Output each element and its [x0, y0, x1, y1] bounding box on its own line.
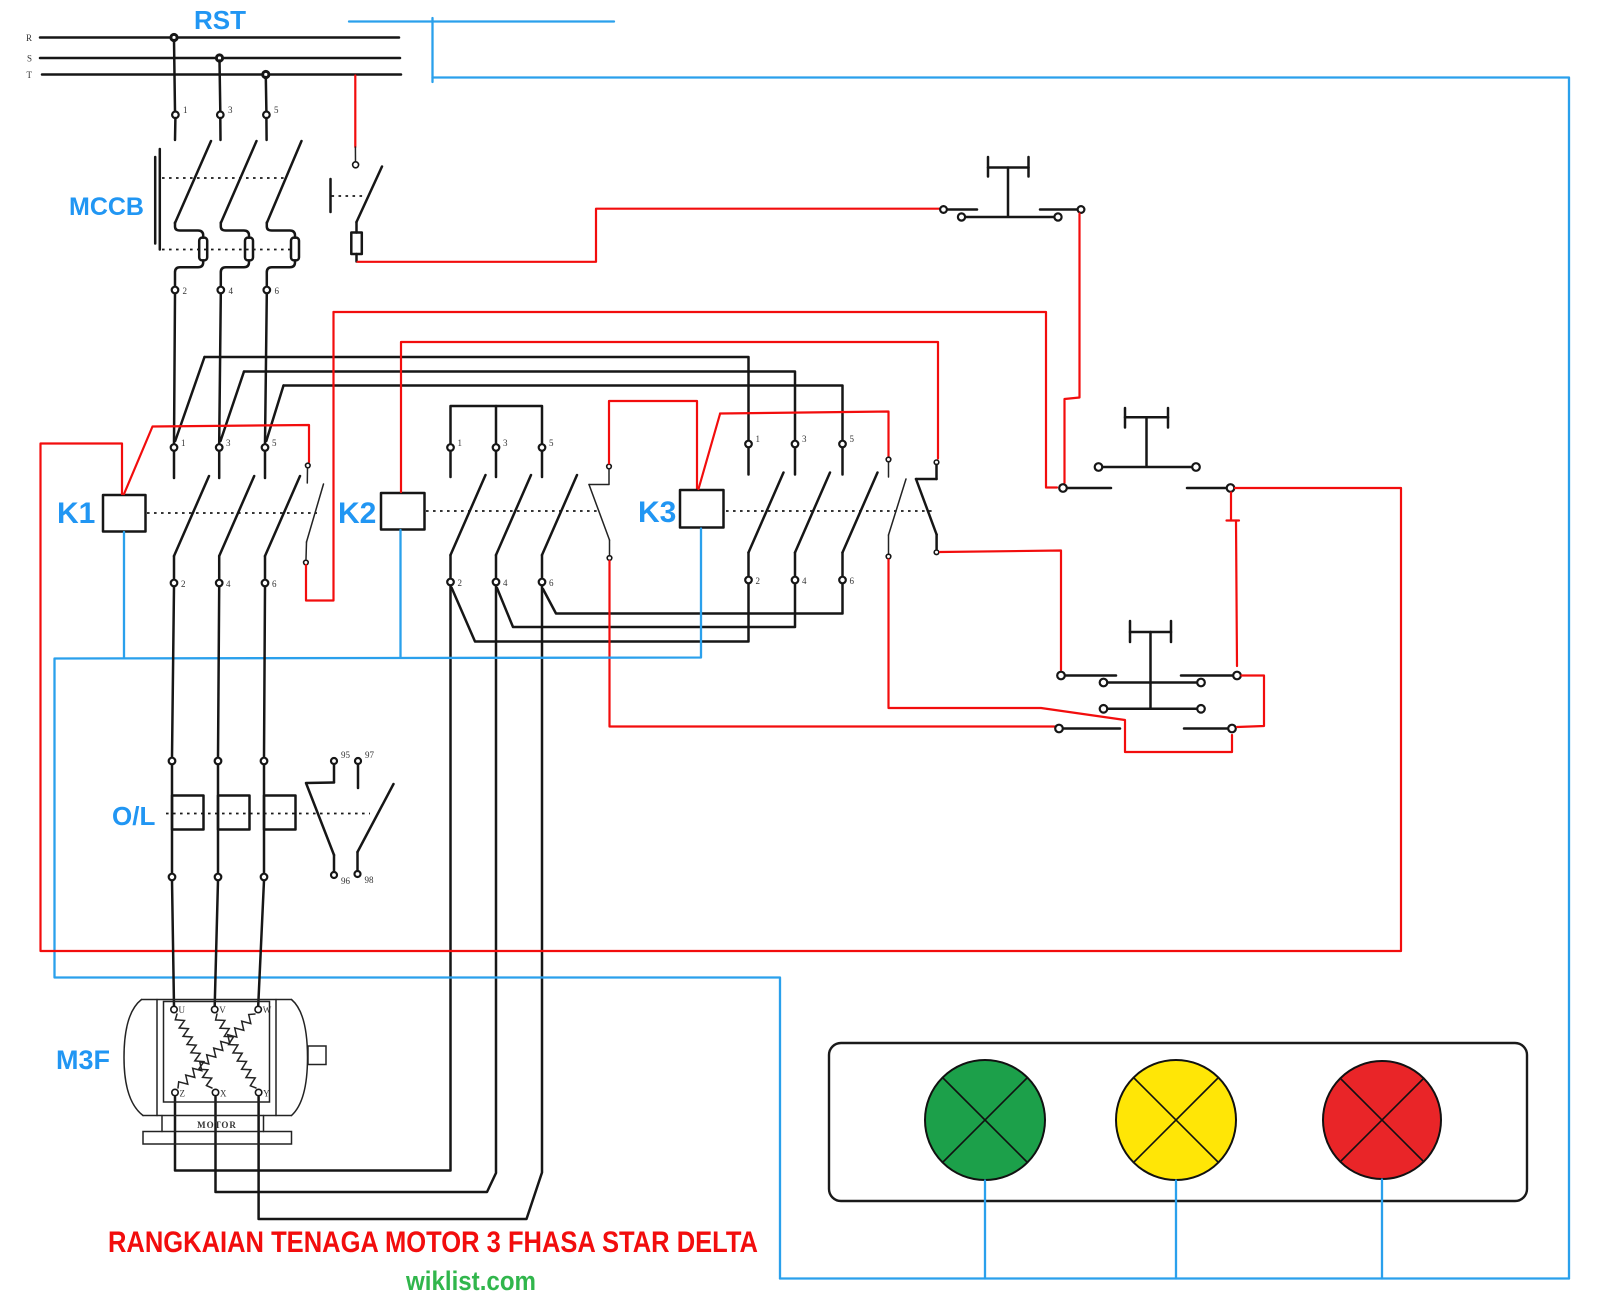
fuse bottom stub	[355, 254, 358, 262]
push button CHANGEOVER actuator	[1130, 621, 1171, 681]
MCCB thermal element pole 5 lead	[267, 223, 295, 287]
svg-text:4: 4	[229, 286, 234, 296]
wire K3 aux to button (red)	[940, 551, 1061, 671]
motor base plate	[143, 1132, 292, 1145]
svg-text:1: 1	[756, 434, 761, 444]
MCCB pole 5 stub	[265, 118, 268, 140]
wire K3 loop feed (red)	[609, 401, 697, 489]
MCCB pin 4	[218, 286, 234, 296]
MCCB pin 2	[172, 286, 187, 296]
push button STOP bridge contact	[958, 213, 1062, 220]
wire overload pole5 to motor W	[258, 881, 264, 1007]
wire overload pole3 to motor V	[215, 881, 218, 1007]
svg-text:K3: K3	[638, 496, 676, 529]
blue neutral stub top	[349, 20, 614, 22]
wire K3 coil to timer bus diagonal (red)	[699, 412, 889, 490]
wire lamp yellow drop (blue)	[1175, 1181, 1177, 1279]
wire K1 aux to holding bus (red)	[306, 312, 334, 601]
K2 pin 3	[493, 438, 508, 451]
control breaker F1 latch bar	[329, 179, 332, 212]
push button CHANGEOVER NO left terminal	[1055, 725, 1120, 733]
K1 pin 2	[171, 579, 186, 589]
svg-text:2: 2	[181, 579, 186, 589]
K1 pin 1	[171, 438, 186, 451]
motor winding V-Y	[216, 1014, 256, 1088]
K2 pole 5 contact	[542, 451, 577, 579]
push button CHANGEOVER NC left terminal	[1057, 672, 1116, 680]
interlock NC contact	[589, 469, 610, 555]
bus line L3 to K3 pole 3	[284, 386, 843, 441]
svg-text:X: X	[220, 1089, 227, 1099]
K1 pole 5 contact	[265, 451, 300, 580]
K2 star bar center drop	[495, 406, 498, 444]
motor shaft stub	[308, 1046, 326, 1065]
motor terminal Y	[255, 1089, 270, 1099]
svg-text:5: 5	[549, 438, 554, 448]
svg-text:V: V	[219, 1005, 226, 1015]
wire K1 pin2 to overload pole 1	[172, 587, 174, 758]
svg-text:2: 2	[458, 578, 463, 588]
push button START actuator	[1125, 408, 1168, 466]
overload trip contact 95	[331, 750, 351, 782]
fuse element F1	[351, 233, 362, 255]
wire lamp red drop (blue)	[1381, 1180, 1383, 1279]
MCCB thermal heater pole 3	[245, 238, 253, 261]
node junction R tap	[171, 34, 177, 40]
motor terminal W	[255, 1005, 272, 1015]
svg-text:T: T	[27, 70, 33, 80]
svg-text:6: 6	[850, 576, 855, 586]
overload pole 3 terminal top	[215, 758, 222, 765]
svg-text:5: 5	[274, 105, 279, 115]
holding bus wire (red)	[334, 312, 1058, 488]
MCCB pin 6	[264, 286, 280, 296]
bus R phase line	[26, 33, 399, 43]
indicator lamp red	[1323, 1061, 1441, 1179]
motor terminal box	[164, 1002, 270, 1103]
K1 pole 1 contact	[174, 451, 209, 580]
MCCB thermal heater pole 5	[291, 238, 299, 261]
MCCB pole 5 blade	[267, 141, 302, 223]
wire T tap to control breaker (red)	[354, 76, 356, 148]
contactor K3 coil	[680, 490, 724, 528]
contactor K2 dashed linkage	[426, 510, 597, 512]
wire MCCB 6 to K1 pin 5	[265, 294, 267, 444]
push button STOP left terminal	[940, 206, 977, 213]
K3 pole 5 contact	[843, 448, 878, 577]
bus drop L2 to K1 pole 3	[221, 372, 245, 442]
motor terminal V	[212, 1005, 227, 1015]
wire K3 coil blue drop	[55, 529, 781, 1279]
MCCB pole 1 blade	[175, 141, 211, 223]
bus S phase line	[27, 54, 400, 64]
contactor K2 coil	[381, 493, 425, 530]
push button CHANGEOVER stem link	[1149, 683, 1152, 709]
bus line L2 to K3 pole 2	[244, 372, 795, 441]
wire STOP to START (red)	[1065, 214, 1080, 484]
wire MCCB 4 to K1 pin 3	[219, 294, 221, 444]
overload trip contact 98	[355, 852, 375, 885]
overload pole 5 lead	[263, 765, 266, 874]
K3 pole 1 contact	[749, 448, 784, 577]
control breaker F1 lower stub	[355, 222, 358, 233]
blue lamp feeder top	[433, 78, 1570, 1279]
wire K1 pin6 to overload pole 5	[264, 587, 265, 758]
bus line L1 to K3 pole 1	[205, 357, 749, 441]
wire T tap to MCCB pin 5	[265, 77, 268, 111]
motor M3F casing	[124, 1000, 308, 1116]
bus T phase line	[27, 70, 402, 80]
K1 pin 3	[216, 438, 231, 451]
wire K2 pin2 to motor Z loop	[175, 586, 451, 1171]
svg-text:wiklist.com: wiklist.com	[405, 1266, 536, 1296]
svg-text:6: 6	[272, 579, 277, 589]
wire K1 pin4 to overload pole 3	[218, 587, 219, 758]
overload pole 1 terminal bottom	[169, 874, 176, 881]
overload NC blade 95-96	[306, 783, 334, 856]
control breaker F1 top stub	[354, 147, 356, 162]
wire lamp common bus (blue)	[780, 1277, 1569, 1279]
svg-text:1: 1	[458, 438, 463, 448]
push button START right terminal	[1187, 484, 1234, 492]
wire K2 coil blue drop	[399, 530, 401, 658]
wire fuse to stop button (red)	[358, 209, 940, 262]
push button CHANGEOVER NC bridge	[1100, 679, 1205, 687]
MCCB thermal trip dashed	[162, 249, 290, 251]
overload trip contact 97	[355, 750, 375, 788]
svg-text:1: 1	[181, 438, 186, 448]
MCCB pole 3 blade	[221, 141, 257, 223]
MCCB pin 1	[172, 105, 187, 118]
push button START left terminal	[1059, 484, 1111, 492]
wire K1 coil feed (red)	[121, 444, 123, 494]
K2 pole 1 contact	[451, 451, 486, 579]
lamp panel box	[829, 1043, 1527, 1201]
svg-text:1: 1	[183, 105, 188, 115]
overload pole 5 terminal bottom	[261, 874, 268, 881]
interlock NC contact top terminal	[607, 464, 612, 469]
MCCB pin 5	[263, 105, 279, 118]
K3 pin 5	[839, 434, 854, 447]
MCCB pin 3	[217, 105, 233, 118]
overload pole 3 terminal bottom	[215, 874, 222, 881]
K2 pole 3 contact	[496, 451, 531, 579]
overload pole 1 terminal top	[169, 758, 176, 765]
push button CHANGEOVER NO right terminal	[1184, 725, 1236, 733]
svg-text:6: 6	[275, 286, 280, 296]
wire START to changeover button (red)	[1227, 493, 1240, 667]
push button CHANGEOVER NC right terminal	[1181, 672, 1241, 680]
svg-text:3: 3	[802, 434, 807, 444]
motor terminal U	[171, 1005, 186, 1015]
wire MCCB 2 to K1 pin 1	[174, 294, 175, 444]
wire K2 pin6 to motor Y loop	[259, 586, 542, 1220]
wire S tap to MCCB pin 3	[218, 61, 221, 112]
svg-text:M3F: M3F	[56, 1045, 110, 1075]
K3 aux NO contact top terminal	[934, 460, 939, 465]
overload pole 3 lead	[217, 765, 220, 874]
motor terminal X	[212, 1089, 227, 1099]
K1 aux NO contact	[306, 468, 324, 559]
node junction S tap	[216, 55, 222, 61]
overload pole 1 lead	[171, 765, 174, 874]
svg-text:3: 3	[503, 438, 508, 448]
control breaker F1 dashed linkage	[332, 195, 367, 197]
svg-text:4: 4	[503, 578, 508, 588]
motor winding U-X	[175, 1014, 212, 1088]
wire lamp green drop (blue)	[984, 1181, 986, 1279]
push button STOP actuator	[988, 157, 1029, 216]
circuit breaker MCCB housing bars	[155, 149, 160, 250]
svg-text:W: W	[263, 1005, 272, 1015]
K1 pin 4	[216, 579, 231, 589]
interlock NC bottom terminal	[607, 556, 612, 561]
MCCB pole 3 stub	[219, 118, 222, 140]
svg-text:Z: Z	[180, 1089, 186, 1099]
K2 pin 5	[539, 438, 554, 451]
svg-text:3: 3	[228, 105, 233, 115]
overload pole 5 terminal top	[261, 758, 268, 765]
push button STOP right terminal	[1040, 206, 1084, 213]
delta link K2 pin2 to K3 pin2	[452, 584, 749, 642]
K3 aux NO contact	[916, 465, 937, 549]
wire R tap to MCCB pin 1	[174, 40, 175, 111]
svg-text:K2: K2	[338, 497, 376, 530]
motor terminal Z	[172, 1089, 185, 1099]
K2 star bridge bar	[451, 406, 543, 444]
svg-text:2: 2	[183, 286, 188, 296]
K3 pin 4	[792, 576, 807, 586]
contactor K1 dashed linkage	[147, 512, 317, 514]
K3 timer NC contact top terminal	[886, 457, 891, 462]
K3 pin 2	[745, 576, 760, 586]
overload dashed linkage	[166, 813, 370, 815]
wire K2 pin4 to motor X loop	[216, 586, 497, 1193]
K3 pin 6	[839, 576, 854, 586]
bus drop L1 to K1 pole 1	[175, 357, 204, 441]
svg-text:96: 96	[341, 876, 351, 886]
wire changeover NC to NO link (red)	[1237, 676, 1264, 728]
overload NO blade 97-98	[358, 784, 394, 852]
MCCB pole 1 stub	[174, 118, 177, 140]
wire timer NC to button loop (red)	[889, 560, 1233, 753]
svg-text:5: 5	[272, 438, 277, 448]
contactor K3 dashed linkage	[726, 510, 936, 512]
K2 pin 6	[539, 578, 554, 588]
bus drop L3 to K1 pole 5	[266, 386, 283, 442]
K3 pin 3	[792, 434, 807, 447]
K1 pole 3 contact	[219, 451, 254, 580]
K1 pin 6	[262, 579, 277, 589]
K3 pin 1	[745, 434, 760, 447]
K1 pin 5	[262, 438, 277, 451]
control breaker F1 blade	[357, 167, 383, 223]
wire K1 coil blue drop	[123, 532, 125, 658]
svg-text:2: 2	[756, 576, 761, 586]
delta link K2 pin4 to K3 pin4	[497, 584, 795, 628]
wire K1 coil to aux riser diagonal (red)	[124, 425, 309, 494]
push button START bridge contact	[1095, 463, 1200, 471]
node junction T tap	[263, 71, 269, 77]
K2 pin 1	[447, 438, 462, 451]
svg-text:6: 6	[549, 578, 554, 588]
K3 timer NC bottom terminal	[886, 554, 891, 559]
K2 pin 2	[447, 578, 462, 588]
K2 pin 4	[493, 578, 508, 588]
svg-text:S: S	[27, 54, 32, 64]
motor winding W-Z	[178, 1014, 255, 1088]
overload heater pole 3	[218, 796, 250, 830]
svg-text:RANGKAIAN TENAGA MOTOR 3 FHASA: RANGKAIAN TENAGA MOTOR 3 FHASA STAR DELT…	[108, 1226, 758, 1259]
K1 aux NO contact top terminal	[306, 463, 311, 468]
svg-text:Y: Y	[263, 1089, 270, 1099]
MCCB thermal heater pole 1	[199, 238, 207, 261]
svg-text:4: 4	[802, 576, 807, 586]
svg-text:MCCB: MCCB	[69, 193, 144, 221]
control breaker F1 top terminal	[353, 162, 359, 168]
MCCB thermal element pole 3 lead	[221, 223, 249, 287]
K3 timer NC contact	[889, 462, 907, 553]
contactor K1 coil	[103, 495, 146, 532]
wire START to K1 coil loop (red)	[41, 444, 1402, 952]
svg-text:98: 98	[365, 875, 375, 885]
delta link K2 pin6 to K3 pin6	[543, 584, 843, 614]
K3 pole 3 contact	[795, 448, 830, 577]
wire K2 coil feed riser (red)	[401, 342, 938, 492]
svg-text:U: U	[179, 1005, 186, 1015]
svg-text:4: 4	[226, 579, 231, 589]
overload trip contact 96	[331, 855, 351, 886]
svg-text:O/L: O/L	[112, 801, 155, 831]
motor pedestal	[162, 1116, 264, 1132]
svg-text:K1: K1	[57, 497, 95, 530]
MCCB trip linkage dashed	[162, 177, 287, 179]
svg-text:RST: RST	[194, 5, 246, 35]
svg-text:5: 5	[850, 434, 855, 444]
svg-text:95: 95	[341, 750, 351, 760]
wire interlock NC to button (red)	[610, 561, 1055, 727]
indicator lamp green	[925, 1060, 1045, 1180]
overload heater pole 1	[172, 796, 204, 830]
svg-text:97: 97	[365, 750, 375, 760]
MCCB thermal element pole 1 lead	[175, 223, 203, 287]
svg-text:MOTOR: MOTOR	[197, 1120, 237, 1130]
K1 aux NO bottom terminal	[304, 560, 309, 565]
indicator lamp yellow	[1116, 1060, 1236, 1180]
svg-text:3: 3	[226, 438, 231, 448]
svg-text:R: R	[26, 33, 32, 43]
push button CHANGEOVER NO bridge	[1100, 705, 1205, 713]
overload heater pole 5	[264, 796, 296, 830]
blue riser top	[431, 18, 433, 82]
K3 aux NO bottom terminal	[934, 550, 939, 555]
wire overload pole1 to motor U	[172, 881, 174, 1007]
